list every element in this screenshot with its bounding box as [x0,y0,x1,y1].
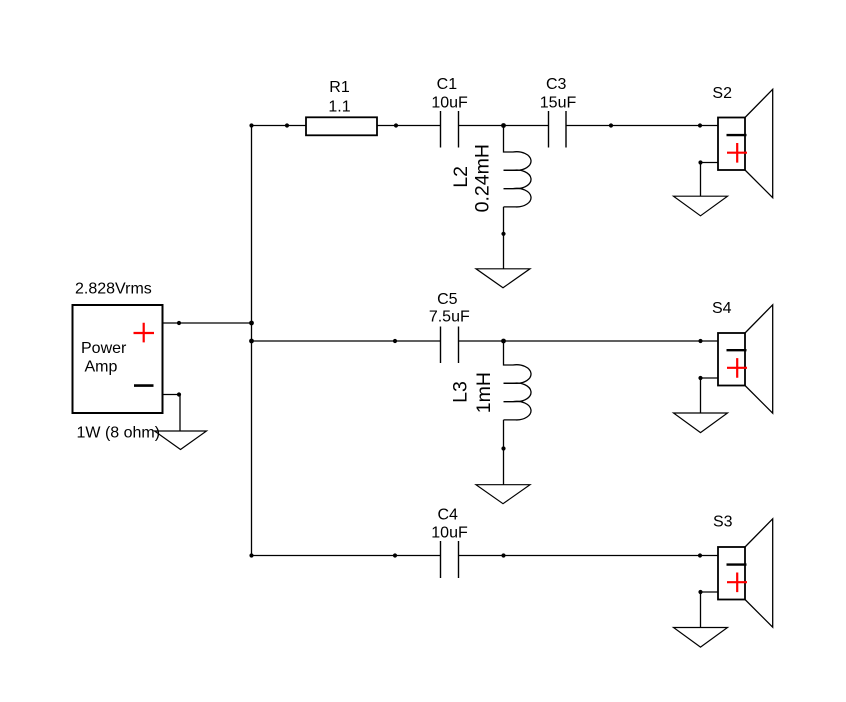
svg-text:L2: L2 [450,166,472,188]
svg-text:S2: S2 [712,85,732,102]
svg-text:2.828Vrms: 2.828Vrms [75,281,152,298]
svg-text:R1: R1 [329,79,350,96]
svg-text:0.24mH: 0.24mH [472,144,494,212]
svg-text:1mH: 1mH [473,372,495,413]
svg-text:C4: C4 [437,507,458,524]
svg-text:10uF: 10uF [431,525,468,542]
svg-text:15uF: 15uF [540,94,577,111]
svg-text:L3: L3 [450,381,472,403]
svg-text:10uF: 10uF [431,94,468,111]
svg-text:S3: S3 [713,514,733,531]
svg-text:Amp: Amp [85,359,118,376]
svg-text:C3: C3 [546,76,567,93]
svg-text:Power: Power [81,340,127,357]
svg-text:C5: C5 [437,291,458,308]
svg-text:S4: S4 [712,300,732,317]
svg-text:C1: C1 [437,76,458,93]
svg-text:1.1: 1.1 [328,99,350,116]
svg-text:7.5uF: 7.5uF [429,308,470,325]
svg-text:1W (8 ohm): 1W (8 ohm) [77,425,161,442]
